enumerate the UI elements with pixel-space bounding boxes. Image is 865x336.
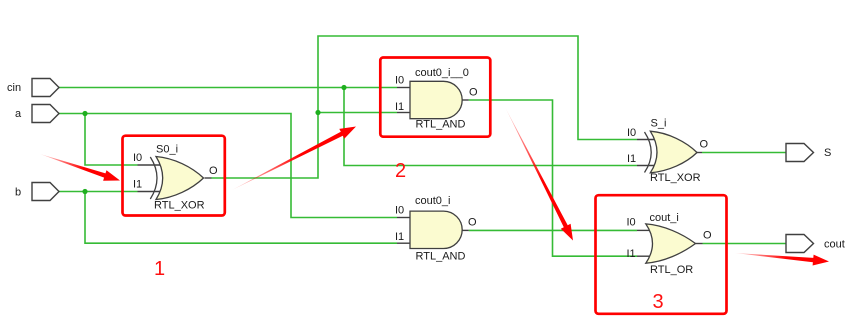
annotation red box 3 [596,195,727,314]
node junction a [82,111,87,116]
svg-text:I1: I1 [133,179,142,191]
annotation red box 2 [380,58,490,137]
wire b branch to cout0_i I1 [85,192,397,244]
svg-text:O: O [703,230,712,242]
svg-text:O: O [469,87,478,99]
wire S net to port S [702,152,786,154]
wire cout net to port cout [703,243,787,245]
svg-text:RTL_AND: RTL_AND [416,251,466,263]
svg-text:RTL_AND: RTL_AND [416,119,466,131]
port cin [7,79,59,97]
svg-text:I1: I1 [627,248,636,260]
wire cout0 net from cout0_i O to cout_i I0 [469,229,637,231]
svg-text:2: 2 [395,160,406,182]
annotation arrow 1 [40,154,120,181]
wire a branch to S0_i I0 [85,114,138,166]
svg-text:S_i: S_i [651,118,667,130]
port cout [786,235,845,253]
svg-text:cout: cout [824,239,845,251]
svg-text:cout0_i__0: cout0_i__0 [415,67,469,79]
wire S0 net from S0_i O up and over to S_i I0 [212,36,638,178]
op OR gate cout_i [627,212,713,276]
svg-text:I0: I0 [133,152,142,164]
svg-text:O: O [468,217,477,229]
annotation arrow 4 [735,253,829,266]
svg-text:I1: I1 [627,153,636,165]
svg-text:I1: I1 [395,101,404,113]
svg-text:RTL_OR: RTL_OR [650,264,693,276]
op AND gate cout0_i__0 [395,67,478,131]
annotation arrow 3 [506,108,574,241]
annotation red box 1 [123,136,225,216]
svg-text:a: a [15,108,22,120]
svg-text:RTL_XOR: RTL_XOR [650,172,701,184]
port b [15,183,59,201]
node junction b [82,189,87,194]
op XOR gate S0_i [133,144,218,212]
svg-text:I0: I0 [395,205,404,217]
wire cin branch to S_i I1 [344,88,637,166]
wire cout0__0 net from cout0_i__0 O to cout_i I1 [469,100,637,256]
svg-text:cin: cin [7,82,21,94]
svg-text:3: 3 [653,291,664,313]
svg-text:S: S [824,147,831,159]
op AND gate cout0_i [395,195,477,263]
svg-text:I1: I1 [395,231,404,243]
svg-text:RTL_XOR: RTL_XOR [154,200,205,212]
wire S0 branch to cout0_i__0 I1 [318,112,397,114]
wire cin net horizontal [59,87,397,89]
svg-text:cout0_i: cout0_i [415,195,450,207]
op XOR gate S_i [627,118,709,185]
port S [786,144,831,162]
svg-text:I0: I0 [395,75,404,87]
svg-text:cout_i: cout_i [650,212,679,224]
node junction S0 [315,110,320,115]
wire a net to cout0_i I0 [59,114,397,218]
svg-text:b: b [15,187,21,199]
svg-text:I0: I0 [627,217,636,229]
svg-text:S0_i: S0_i [156,144,178,156]
svg-text:O: O [209,165,218,177]
svg-text:I0: I0 [627,127,636,139]
annotation arrow 2 [232,127,356,191]
svg-text:1: 1 [154,258,165,280]
node junction cin [341,85,346,90]
wire b net to S0_i I1 [59,191,138,193]
port a [15,105,59,123]
svg-text:O: O [700,139,709,151]
